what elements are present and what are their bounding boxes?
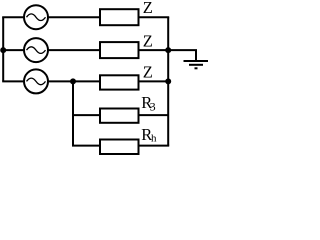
svg-text:Z: Z [143,31,153,50]
resistor R3 [100,109,139,123]
ac source G2 [24,38,48,62]
wire row1 left stub [2,16,23,18]
wire row3 Z3 to right bus [139,80,169,82]
wire row1 source to Z1 [49,16,101,18]
wire Rh row left stub [72,145,100,147]
wire ground tap [168,50,196,61]
impedance Z1 [100,9,139,25]
wire bottom left bus vertical [72,81,74,145]
ground [184,61,209,68]
wire row2 source to Z2 [49,49,101,51]
wire R3 to right bus [139,114,169,116]
wire row3 left stub [2,80,23,82]
junction dot left bus row2 [0,47,6,53]
wire row2 Z2 to right bus [139,49,169,51]
impedance Z2 [100,42,139,58]
wire row1 Z1 to right bus [139,16,170,18]
wire row2 left stub [2,49,23,51]
wire left bus vertical [2,17,4,81]
wire right bus vertical [167,17,169,145]
resistor Rh [100,140,139,155]
wire R3 row left stub [73,114,100,116]
svg-text:h: h [151,133,157,145]
impedance Z3 [100,75,139,89]
label R3 [141,93,155,113]
junction dot row3 tap [70,78,76,84]
wire Rh to right bus [139,145,170,147]
svg-text:3: 3 [150,99,156,113]
wire row3 source to Z3 [49,80,101,82]
junction dot right bus row3 [165,78,171,84]
junction dot right bus row2 [165,47,171,53]
label Rh [141,125,157,145]
svg-text:Z: Z [143,63,153,82]
ac source G3 [24,69,48,93]
svg-text:Z: Z [143,0,153,17]
ac source G1 [24,5,48,29]
